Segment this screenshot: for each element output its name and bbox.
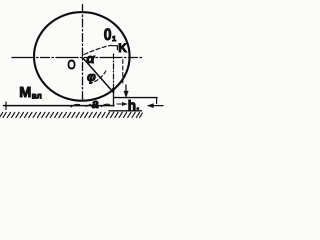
ground surface line right (hatch top) (109, 110, 142, 112)
solid drop from B to ground line (113, 92, 115, 106)
svg-text:O: O (68, 58, 76, 72)
svg-text:φ: φ (87, 70, 96, 84)
wheel circle (34, 12, 130, 101)
down arrow onto step top (125, 85, 127, 92)
vertical centerline through O (82, 5, 84, 101)
ground line left with end tick (4, 105, 115, 107)
svg-text:M: M (19, 85, 31, 101)
horizontal centerline through O (12, 57, 144, 59)
phi angle arc (dashed) (91, 71, 106, 83)
svg-text:вл: вл (32, 92, 42, 101)
radius line O to contact point B (83, 58, 114, 93)
dash-dot vertical through B (113, 54, 115, 92)
step right corner drop (156, 98, 158, 104)
corner mark at K (112, 46, 118, 50)
svg-text:0: 0 (104, 26, 112, 44)
svg-text:1: 1 (112, 34, 116, 43)
hatching (0, 112, 142, 117)
dimension tilde right of a (102, 104, 110, 106)
dashed vertical below K (122, 60, 124, 85)
svg-text:K: K (118, 41, 127, 55)
step top line from B to the right (115, 97, 158, 99)
arrowhead onto B (112, 88, 115, 93)
svg-text:a: a (92, 97, 99, 111)
dashed line O to K (84, 45, 111, 54)
left-pointing arrow right of h0 (149, 105, 163, 107)
small right arrow left of h0 (117, 103, 127, 106)
dimension tilde left of a (71, 104, 91, 107)
